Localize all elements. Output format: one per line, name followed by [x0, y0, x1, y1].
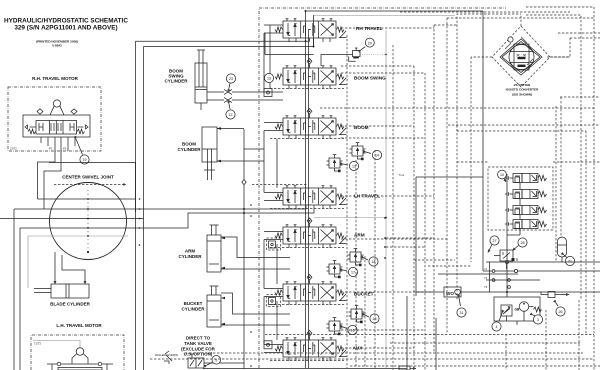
svg-text:P2: P2 [63, 147, 67, 151]
arm cylinder label [178, 249, 202, 260]
wire: bucket cylinder ports [221, 293, 290, 325]
svg-text:12: 12 [229, 113, 233, 117]
junction diamond on feed [242, 180, 246, 185]
svg-text:P1: P1 [49, 147, 53, 151]
solenoid bank enclosure [488, 167, 553, 230]
svg-text:CENTER SWIVEL JOINT: CENTER SWIVEL JOINT [62, 175, 114, 180]
callout 23 [226, 74, 235, 88]
svg-text:17: 17 [351, 271, 355, 275]
callout 12 [226, 104, 235, 119]
bucket cylinder C4 [207, 286, 221, 327]
callout 21 [564, 255, 575, 266]
bucket cylinder label [181, 301, 205, 312]
wire: pilot dashed verticals near bank [347, 35, 375, 368]
svg-text:CYLINDER: CYLINDER [177, 147, 201, 152]
wire: dashed verticals right of diamond [546, 97, 586, 343]
callout 19 [76, 139, 89, 164]
svg-text:BOOM SWING: BOOM SWING [354, 76, 386, 81]
svg-text:CYLINDER: CYLINDER [164, 79, 188, 84]
svg-text:Y1: Y1 [484, 267, 488, 271]
solenoid valve S4 [505, 220, 547, 229]
svg-text:26: 26 [559, 310, 563, 314]
svg-text:U.S. OPTION): U.S. OPTION) [184, 352, 213, 357]
callout 5 [207, 356, 221, 366]
wire: left column frame verticals [136, 41, 144, 370]
svg-text:Tmu: Tmu [399, 173, 405, 177]
svg-text:ISO/STD CONVERTER: ISO/STD CONVERTER [506, 88, 539, 92]
callout 11 [264, 73, 273, 82]
wire: under-valve pilot dashed [252, 89, 344, 361]
wire: boom cylinder ports [217, 127, 264, 162]
wire: pilot lines right mid [320, 97, 600, 162]
wire: bottom solid links [203, 368, 407, 370]
wire: solid frame right of bank [399, 11, 483, 370]
converter port circle [508, 37, 513, 42]
ISO converter label [506, 83, 539, 96]
valve AUX [275, 338, 346, 361]
pilot enclosure dashed right edge [385, 30, 387, 368]
svg-text:21/T2: 21/T2 [10, 147, 17, 151]
bottom rail filter [399, 366, 416, 370]
ARM left port box [267, 238, 281, 250]
svg-text:31: 31 [460, 311, 464, 315]
title block [4, 18, 128, 48]
svg-text:15: 15 [373, 317, 377, 321]
wire: prv20 to boom swing [321, 55, 353, 67]
wire: left tank verticals [14, 209, 28, 370]
svg-text:TANK VALVE: TANK VALVE [184, 341, 212, 346]
wire: arm cylinder ports [221, 237, 290, 269]
pump inlet fitting [541, 292, 569, 298]
pilot manifold callout 27 [488, 236, 499, 253]
svg-text:DIRECT TO: DIRECT TO [186, 336, 211, 341]
callout 10 [498, 170, 507, 182]
valve RH TRAVEL [275, 19, 346, 42]
gallery check valves [307, 59, 312, 341]
svg-text:R.H. TRAVEL MOTOR: R.H. TRAVEL MOTOR [32, 76, 79, 81]
svg-text:BOOM: BOOM [182, 142, 196, 147]
pilot valve near RH (20) [349, 38, 387, 61]
wire: swivel horizontals [0, 199, 314, 236]
svg-text:(EXCLUDE FOR: (EXCLUDE FOR [181, 346, 216, 351]
pilot valve 14 [349, 143, 381, 161]
svg-text:27: 27 [493, 239, 497, 243]
pilot valve 16 [326, 318, 357, 336]
ISO/STD converter diamond [471, 14, 570, 87]
wire: pilot dashed rows to valves [341, 28, 447, 348]
pump group P1 [494, 297, 541, 325]
svg-text:I/S OPTION: I/S OPTION [514, 83, 531, 87]
callout 4 [492, 313, 502, 331]
svg-text:3: 3 [537, 318, 539, 322]
svg-text:ARM: ARM [185, 249, 195, 254]
wire: under RH valve [136, 33, 314, 55]
svg-text:T1/T3: T1/T3 [34, 342, 41, 346]
svg-text:V-8842: V-8842 [52, 44, 62, 48]
boom swing cylinder C1 [195, 50, 207, 103]
ISO converter enclosure dashed [457, 14, 570, 57]
wire: inter-valve left verticals [264, 25, 277, 345]
svg-text:13: 13 [352, 165, 356, 169]
svg-text:CYLINDER: CYLINDER [178, 254, 202, 259]
svg-text:(ISO SHOWN): (ISO SHOWN) [512, 92, 532, 96]
pilot valve 18 [347, 249, 378, 267]
wire: upper dashed horizontals [341, 12, 594, 73]
blade cylinder [34, 284, 89, 298]
svg-text:28: 28 [521, 241, 525, 245]
wire: gray pilot feed [314, 217, 387, 219]
svg-text:Y2: Y2 [484, 276, 488, 280]
callout 3 [533, 315, 543, 324]
svg-text:10: 10 [500, 173, 504, 177]
svg-text:4: 4 [496, 325, 498, 329]
pilot manifold valve [494, 250, 517, 269]
wire: top solid bus [305, 10, 483, 12]
boom cylinder C2 [202, 127, 217, 180]
pilot manifold callout 28 [513, 238, 528, 251]
svg-text:13: 13 [267, 77, 271, 81]
center swivel joint circle [50, 183, 127, 260]
wire: solenoid drops [507, 183, 520, 236]
svg-text:Y3: Y3 [484, 285, 488, 289]
wire: main feed vertical B [243, 129, 245, 369]
valve BOOM SWING [275, 66, 346, 89]
restrictor X upper [224, 89, 232, 94]
motor port stubs [41, 137, 75, 151]
pilot enclosure dashed left edge [259, 8, 506, 368]
svg-text:16: 16 [351, 329, 355, 333]
wire: lower right solid rails [483, 260, 600, 288]
suction strainer WO [416, 287, 600, 297]
svg-text:14: 14 [375, 154, 379, 158]
L.H. travel motor gray drain [33, 341, 80, 349]
valve BOOM [275, 116, 346, 139]
L.H. travel motor M2 [47, 348, 113, 370]
svg-text:L.H. TRAVEL MOTOR: L.H. TRAVEL MOTOR [56, 323, 102, 328]
accumulator A1 [558, 237, 567, 262]
svg-text:BLADE CYLINDER: BLADE CYLINDER [50, 302, 91, 307]
svg-text:ROLLER/LEVER(S): ROLLER/LEVER(S) [155, 353, 178, 357]
arm cylinder C3 [207, 225, 221, 272]
swivel dashed arrow [54, 184, 126, 186]
shuttle diamond right [71, 109, 77, 114]
port labels Y [484, 267, 488, 289]
svg-text:19: 19 [83, 158, 87, 162]
wire: gallery verticals [306, 11, 314, 368]
wire: mid dashed verticals cluster [384, 18, 518, 353]
wire: right dashed frame [526, 7, 600, 343]
restrictor X lower [224, 97, 232, 102]
svg-text:CYLINDER: CYLINDER [181, 307, 205, 312]
svg-text:BUCKET: BUCKET [184, 301, 203, 306]
valve left port stubs [264, 25, 283, 353]
svg-text:GB: GB [515, 308, 520, 312]
swivel housing outline [49, 163, 136, 213]
wire: swivel to blade cylinder [55, 252, 85, 284]
R.H. travel motor enclosure (dashed) [8, 87, 101, 151]
boom cylinder label [177, 142, 201, 153]
callout 26 [556, 303, 565, 316]
L.H. travel motor enclosure [31, 335, 124, 370]
svg-text:20: 20 [368, 41, 372, 45]
BUCKET left port box [267, 295, 281, 307]
svg-text:329 (S/N A2PG11001 AND ABOVE): 329 (S/N A2PG11001 AND ABOVE) [14, 25, 117, 32]
direct to tank valve label [181, 336, 216, 357]
wire: boom swing work lines [201, 92, 264, 110]
svg-text:WO: WO [446, 291, 454, 296]
R.H. travel motor M1 [23, 115, 90, 137]
solenoid valve S2 [505, 190, 547, 199]
pilot valve 15 [348, 306, 379, 324]
solenoid valve S3 [505, 206, 547, 215]
pilot valve 13 [326, 155, 358, 173]
valve ARM [275, 225, 346, 248]
valve LH TRAVEL [275, 186, 346, 209]
callout 31 [457, 298, 466, 317]
svg-text:HYDRAULIC/HYDROSTATIC SCHEMATI: HYDRAULIC/HYDROSTATIC SCHEMATIC [4, 18, 128, 25]
solenoid valve S1 [505, 174, 547, 183]
R.H. travel motor case-drain circle [50, 100, 64, 115]
shuttle diamond left [37, 109, 43, 114]
swivel center dotted line [87, 190, 89, 252]
wire: bottom dashed buses [150, 45, 600, 370]
boom swing cylinder label [164, 69, 188, 84]
direct to tank valve V8 [164, 351, 244, 368]
svg-text:RH TRAVEL: RH TRAVEL [356, 26, 383, 31]
pilot valve 17 [326, 261, 357, 279]
svg-text:ARM: ARM [354, 233, 365, 238]
valve BUCKET [275, 282, 346, 305]
svg-text:23: 23 [229, 77, 233, 81]
wire: solenoid feed vertical [490, 174, 508, 297]
